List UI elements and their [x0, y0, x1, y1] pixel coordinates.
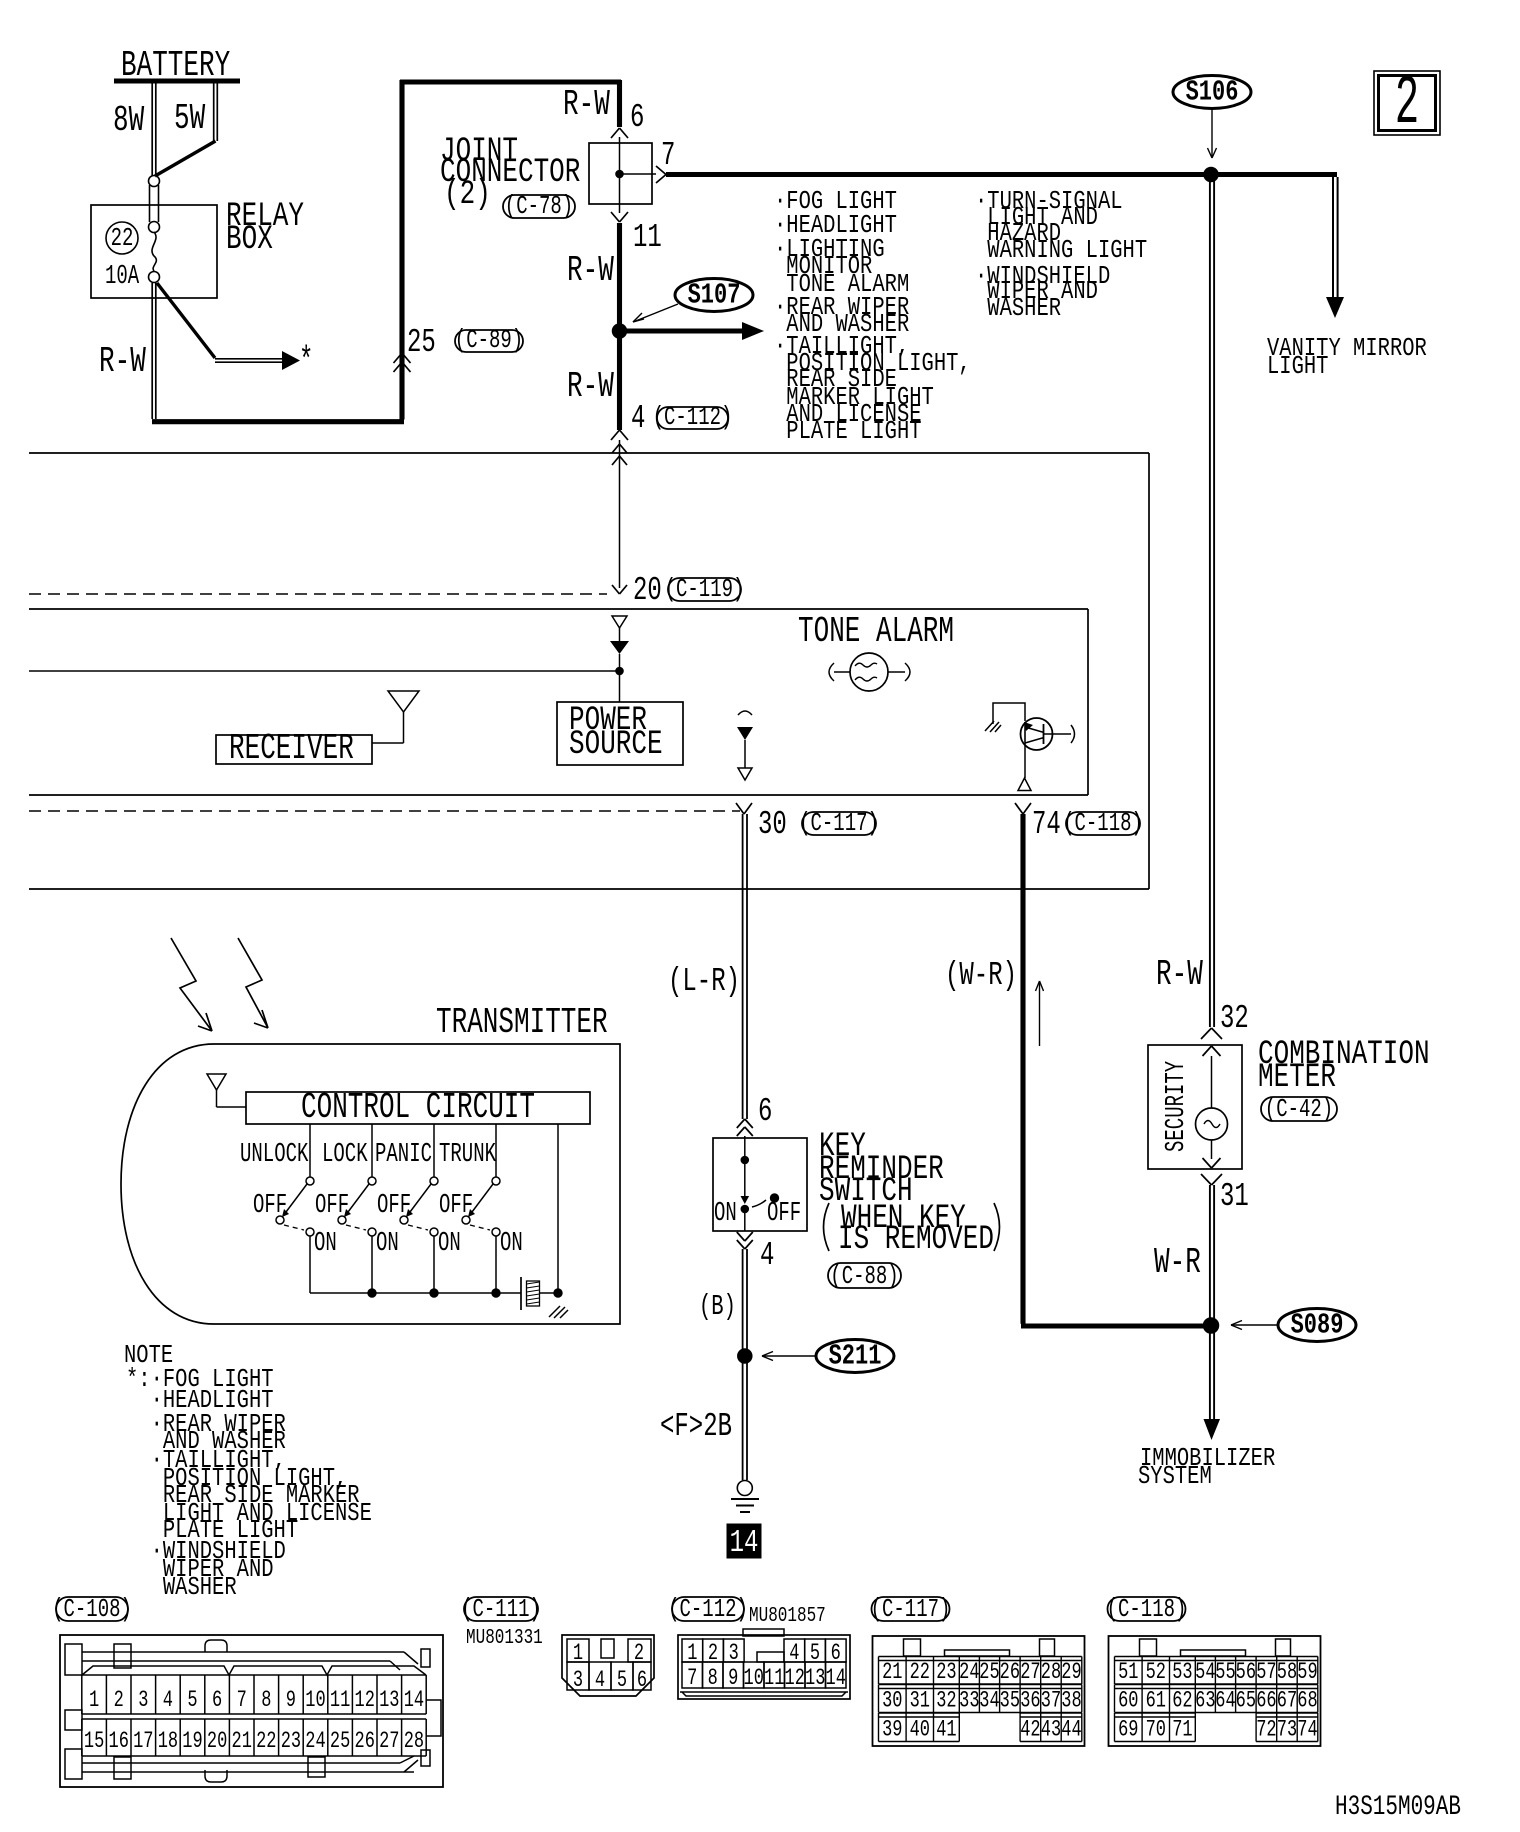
- ground reference tag 14: [727, 1524, 761, 1558]
- svg-text:LIGHT: LIGHT: [1267, 352, 1328, 382]
- svg-text:3: 3: [138, 1688, 148, 1714]
- svg-text:SOURCE: SOURCE: [569, 726, 663, 764]
- ground G1 symbol: [731, 1498, 759, 1500]
- svg-text:*: *: [299, 343, 313, 383]
- immobilizer arrowhead: [1204, 1419, 1221, 1440]
- fuse F22 top terminal: [149, 176, 160, 187]
- svg-text:9: 9: [286, 1688, 296, 1714]
- svg-text:H3S15M09AB: H3S15M09AB: [1335, 1793, 1461, 1823]
- switch SW2 lever: [345, 1184, 369, 1216]
- svg-text:IS REMOVED: IS REMOVED: [838, 1221, 994, 1259]
- power source box: [557, 702, 683, 765]
- svg-text:<F>2B: <F>2B: [660, 1407, 732, 1445]
- switch SW1 dashed throw: [284, 1225, 304, 1230]
- svg-text:R-W: R-W: [567, 251, 614, 291]
- meter pin 32 chevrons: [1201, 1028, 1212, 1039]
- svg-text:(C-117): (C-117): [871, 1594, 951, 1624]
- connector C-119 pin 20 arrow: [612, 585, 620, 594]
- ECU box bottom edge: [29, 888, 1149, 890]
- C-108 left tabs: [65, 1644, 82, 1675]
- joint connector pin 11 chevron: [611, 212, 620, 222]
- splice S211 leader arrow: [762, 1355, 816, 1357]
- svg-text:17: 17: [133, 1729, 153, 1755]
- wire 8W (double): [151, 83, 153, 176]
- ECU box top edge: [29, 452, 1149, 454]
- wire 5W diagonal to fuse: [155, 141, 216, 176]
- svg-text:ON: ON: [314, 1228, 337, 1258]
- splice S107 junction: [613, 324, 627, 338]
- wire branch arrow to fog light circuits: [215, 358, 284, 360]
- connector label C-117 (pin 30): [802, 812, 876, 835]
- svg-text:12: 12: [355, 1688, 375, 1714]
- svg-text:59: 59: [1297, 1660, 1317, 1686]
- switch SW1 output wire: [309, 1236, 311, 1293]
- svg-text:WASHER: WASHER: [975, 294, 1061, 324]
- svg-text:72: 72: [1256, 1717, 1276, 1743]
- svg-text:35: 35: [1000, 1688, 1020, 1714]
- wire thick vertical riser x=402: [399, 80, 404, 420]
- security lamp internal wire: [1211, 1056, 1213, 1108]
- svg-text:69: 69: [1118, 1717, 1138, 1743]
- svg-text:2: 2: [1395, 66, 1419, 144]
- wire L-R (double) from pin 30: [742, 814, 744, 1119]
- C-108 shoulder profile: [82, 1666, 426, 1675]
- svg-text:(C-118): (C-118): [1107, 1594, 1187, 1624]
- svg-text:23: 23: [936, 1660, 956, 1686]
- tone alarm box right edge: [1087, 609, 1089, 795]
- svg-text:TONE ALARM: TONE ALARM: [798, 612, 954, 652]
- tone alarm sounder circle: [850, 653, 888, 691]
- connector C-118 pin 74 chevron: [1015, 803, 1023, 814]
- wire thick bottom run to C-89: [152, 419, 404, 424]
- svg-text:(C-112): (C-112): [668, 1594, 748, 1624]
- svg-text:3: 3: [729, 1641, 739, 1667]
- switch SW2 output wire: [371, 1236, 373, 1293]
- svg-text:74: 74: [1032, 805, 1061, 843]
- switch SW4 OFF contact: [462, 1216, 470, 1224]
- switch SW4 top contact: [492, 1177, 500, 1185]
- C-117 pin row 3: [879, 1712, 960, 1714]
- battery cell plate: [520, 1277, 522, 1310]
- svg-text:25: 25: [979, 1660, 999, 1686]
- svg-text:S107: S107: [688, 279, 741, 312]
- svg-text:22: 22: [910, 1660, 930, 1686]
- svg-text:(W-R): (W-R): [945, 956, 1017, 994]
- transistor Q1 ground hatch: [985, 721, 994, 731]
- svg-text:40: 40: [910, 1717, 930, 1743]
- svg-text:ON: ON: [376, 1228, 399, 1258]
- splice S089 ellipse: [1278, 1309, 1356, 1342]
- svg-text:(C-78): (C-78): [505, 191, 573, 221]
- svg-text:UNLOCK: UNLOCK: [240, 1139, 309, 1169]
- wire thick W-R from pin 74: [1020, 814, 1025, 1324]
- joint connector pin 6 chevron: [611, 128, 620, 138]
- svg-text:10: 10: [744, 1666, 764, 1692]
- svg-text:TRUNK: TRUNK: [439, 1139, 496, 1169]
- dashed boundary line (C-119): [29, 593, 607, 595]
- svg-text:6: 6: [831, 1641, 841, 1667]
- joint connector U1 body: [589, 143, 652, 204]
- switch SW4 wire: [495, 1124, 497, 1177]
- connector C-111 housing: [562, 1635, 654, 1696]
- connector C-119 female triangle: [612, 616, 627, 628]
- transistor Q1 body: [1021, 718, 1053, 750]
- svg-text:(C-118): (C-118): [1063, 808, 1143, 838]
- svg-text:CONTROL CIRCUIT: CONTROL CIRCUIT: [301, 1088, 535, 1128]
- svg-text:29: 29: [1061, 1660, 1081, 1686]
- connector label C-89: [455, 330, 523, 352]
- switch SW1 wire: [309, 1124, 311, 1177]
- C-108 right bracket: [426, 1700, 441, 1736]
- svg-text:24: 24: [305, 1729, 325, 1755]
- fuse F22 element: [152, 232, 156, 271]
- key switch pin 6 chevrons: [737, 1119, 745, 1128]
- svg-text:(C-112): (C-112): [653, 402, 733, 432]
- wire pin4 to pin20 (thin): [619, 440, 621, 588]
- wire thick R-W horizontal to vanity mirror: [666, 172, 1337, 177]
- relay box outline: [91, 205, 217, 298]
- svg-text:(C-42): (C-42): [1265, 1094, 1333, 1124]
- svg-text:71: 71: [1172, 1717, 1192, 1743]
- svg-text:7: 7: [661, 136, 675, 174]
- C-118 pin row 3: [1115, 1712, 1196, 1714]
- splice S107 leader arrow: [633, 304, 678, 322]
- C-111 pin cells: [567, 1639, 589, 1662]
- svg-text:26: 26: [355, 1729, 375, 1755]
- svg-text:10: 10: [305, 1688, 325, 1714]
- svg-text:70: 70: [1146, 1717, 1166, 1743]
- svg-text:57: 57: [1256, 1660, 1276, 1686]
- splice S089 leader arrow: [1231, 1324, 1278, 1326]
- connector C-112 pin 4 chevron: [611, 430, 620, 440]
- connector label C-42: [1261, 1097, 1337, 1121]
- svg-text:39: 39: [882, 1717, 902, 1743]
- key switch common wire: [744, 1136, 746, 1160]
- svg-text:WASHER: WASHER: [126, 1573, 237, 1603]
- switch SW3 wire: [433, 1124, 435, 1177]
- svg-text:74: 74: [1297, 1717, 1317, 1743]
- wire 5W (double): [213, 83, 215, 141]
- fuse F22 middle terminal: [149, 222, 160, 233]
- svg-text:5: 5: [810, 1641, 820, 1667]
- wire hatched branch from fuse: [157, 283, 215, 358]
- transmitter antenna: [207, 1074, 226, 1090]
- svg-text:OFF: OFF: [315, 1190, 349, 1220]
- svg-text:6: 6: [212, 1688, 222, 1714]
- connector C-118 housing: [1109, 1636, 1321, 1746]
- svg-text:73: 73: [1277, 1717, 1297, 1743]
- connector label C-118: [1108, 1597, 1186, 1621]
- svg-text:8W: 8W: [113, 101, 144, 141]
- svg-text:4: 4: [163, 1688, 173, 1714]
- svg-text:15: 15: [84, 1729, 104, 1755]
- switch SW2 ON contact: [368, 1228, 376, 1236]
- svg-text:R-W: R-W: [1156, 955, 1203, 995]
- key switch OFF contact dot: [770, 1194, 778, 1202]
- switch SW4 output wire: [495, 1236, 497, 1293]
- splice S106 junction: [1204, 168, 1218, 182]
- svg-text:S089: S089: [1291, 1309, 1344, 1342]
- connector C-108 housing: [60, 1635, 443, 1787]
- switch SW2 OFF contact: [338, 1216, 346, 1224]
- svg-text:27: 27: [1020, 1660, 1040, 1686]
- connector C-117 pin 30 chevron: [736, 803, 744, 814]
- switch SW1 top contact: [306, 1177, 314, 1185]
- C-117 top tabs: [904, 1639, 921, 1656]
- switch SW2 top contact: [368, 1177, 376, 1185]
- svg-text:S211: S211: [829, 1340, 882, 1373]
- svg-text:67: 67: [1277, 1688, 1297, 1714]
- svg-text:55: 55: [1215, 1660, 1235, 1686]
- svg-text:21: 21: [882, 1660, 902, 1686]
- wire thick branch arrow right from S107: [624, 328, 744, 333]
- joint connector pin 7 wire: [620, 173, 657, 175]
- C-108 inner tabs: [114, 1644, 131, 1668]
- svg-text:11: 11: [330, 1688, 350, 1714]
- svg-text:13: 13: [379, 1688, 399, 1714]
- svg-text:6: 6: [758, 1092, 772, 1130]
- key reminder switch box: [713, 1138, 807, 1231]
- svg-text:62: 62: [1172, 1688, 1192, 1714]
- svg-text:OFF: OFF: [253, 1190, 287, 1220]
- svg-text:4: 4: [595, 1668, 605, 1694]
- switch SW4 lever: [469, 1184, 493, 1216]
- ECU box right edge: [1148, 453, 1150, 889]
- svg-text:14: 14: [730, 1526, 759, 1561]
- switch SW3 lever: [407, 1184, 431, 1216]
- svg-text:63: 63: [1195, 1688, 1215, 1714]
- wire thick top run to joint connector: [400, 79, 621, 84]
- transmitter enclosure: [121, 1044, 620, 1324]
- joint connector node dot: [616, 170, 624, 178]
- ground G1 terminal: [737, 1481, 752, 1496]
- svg-text:5W: 5W: [174, 99, 205, 139]
- tone alarm output connector pair: [738, 711, 752, 715]
- svg-text:MU801331: MU801331: [466, 1626, 543, 1650]
- svg-text:66: 66: [1256, 1688, 1276, 1714]
- wire from fuse to R-W (double): [151, 283, 153, 419]
- svg-text:14: 14: [404, 1688, 424, 1714]
- splice S106 leader arrow: [1211, 109, 1213, 156]
- svg-text:36: 36: [1020, 1688, 1040, 1714]
- splice S106 ellipse: [1173, 76, 1251, 109]
- splice S211 junction: [738, 1349, 752, 1363]
- svg-text:OFF: OFF: [377, 1190, 411, 1220]
- control circuit return wire: [557, 1124, 559, 1293]
- svg-text:32: 32: [1220, 999, 1249, 1037]
- vanity mirror arrowhead: [1326, 297, 1344, 318]
- switch SW4 dashed throw: [470, 1225, 490, 1230]
- wire horizontal internal bus: [29, 670, 620, 672]
- svg-text:56: 56: [1236, 1660, 1256, 1686]
- C-112 bottom skirt: [680, 1691, 848, 1693]
- wire R-W (double) S106 to meter: [1209, 181, 1211, 1027]
- svg-text:60: 60: [1118, 1688, 1138, 1714]
- node junction dot (power source feed): [616, 667, 624, 675]
- svg-text:(C-89): (C-89): [455, 325, 523, 355]
- svg-text:2: 2: [114, 1688, 124, 1714]
- svg-text:11: 11: [633, 218, 662, 256]
- svg-text:51: 51: [1118, 1660, 1138, 1686]
- svg-text:52: 52: [1146, 1660, 1166, 1686]
- tone alarm right lead: [888, 671, 905, 673]
- svg-text:28: 28: [1041, 1660, 1061, 1686]
- battery cell coil (hatched): [527, 1281, 540, 1306]
- switch SW1 lever: [283, 1184, 307, 1216]
- key switch pin 4 chevrons: [737, 1232, 745, 1241]
- C-108 top cap: [205, 1640, 227, 1652]
- switch SW3 dashed throw: [408, 1225, 428, 1230]
- svg-text:4: 4: [789, 1641, 799, 1667]
- svg-text:16: 16: [109, 1729, 129, 1755]
- page tag 2 box: [1374, 71, 1440, 135]
- svg-text:30: 30: [758, 805, 787, 843]
- transmitter ground: [549, 1306, 560, 1317]
- svg-text:58: 58: [1277, 1660, 1297, 1686]
- battery bus bar: [114, 79, 240, 84]
- svg-text:2: 2: [634, 1641, 644, 1667]
- key switch lever (to OFF): [752, 1200, 766, 1207]
- connector label C-117: [872, 1597, 950, 1621]
- wire B (double) below key switch: [742, 1249, 744, 1480]
- svg-text:7: 7: [687, 1666, 697, 1692]
- C-108 bottom housing lines: [82, 1762, 400, 1764]
- svg-text:TRANSMITTER: TRANSMITTER: [436, 1003, 608, 1043]
- svg-text:42: 42: [1020, 1717, 1040, 1743]
- C-108 pin grid: [82, 1674, 426, 1676]
- svg-text:ON: ON: [500, 1228, 523, 1258]
- svg-text:38: 38: [1061, 1688, 1081, 1714]
- switch SW3 output wire: [433, 1236, 435, 1293]
- meter pin 31 chevrons: [1203, 1158, 1212, 1168]
- radio wave bolt 1: [171, 938, 212, 1031]
- tone alarm box top edge: [29, 608, 1088, 610]
- svg-text:11: 11: [764, 1666, 784, 1692]
- svg-text:13: 13: [805, 1666, 825, 1692]
- control circuit box: [246, 1092, 590, 1124]
- svg-text:(C-111): (C-111): [461, 1594, 541, 1624]
- receiver antenna: [388, 691, 419, 712]
- combination meter box: [1148, 1045, 1242, 1169]
- connector label C-118 (pin 74): [1066, 812, 1140, 835]
- svg-text:5: 5: [187, 1688, 197, 1714]
- svg-text:34: 34: [979, 1688, 999, 1714]
- svg-text:32: 32: [936, 1688, 956, 1714]
- svg-text:64: 64: [1215, 1688, 1235, 1714]
- svg-text:33: 33: [959, 1688, 979, 1714]
- svg-text:68: 68: [1297, 1688, 1317, 1714]
- svg-text:LOCK: LOCK: [322, 1139, 368, 1169]
- wire to vanity mirror light (double): [1332, 177, 1334, 298]
- C-108 bottom cap: [205, 1770, 227, 1782]
- svg-text:44: 44: [1061, 1717, 1081, 1743]
- C-118 top tabs: [1140, 1639, 1157, 1656]
- switch SW3 top contact: [430, 1177, 438, 1185]
- svg-text:W-R: W-R: [1154, 1243, 1201, 1283]
- key switch ON contact: [741, 1205, 749, 1213]
- svg-text:31: 31: [910, 1688, 930, 1714]
- svg-text:(C-88): (C-88): [830, 1261, 898, 1291]
- C-117 pin rows 1-2: [879, 1656, 1082, 1658]
- svg-text:PANIC: PANIC: [375, 1139, 432, 1169]
- key switch moving contact arrow: [741, 1196, 750, 1204]
- switch SW1 OFF contact: [276, 1216, 284, 1224]
- svg-text:5: 5: [617, 1668, 627, 1694]
- svg-text:31: 31: [1220, 1177, 1249, 1215]
- switch common bus: [310, 1292, 521, 1294]
- battery to ground wire: [540, 1292, 559, 1294]
- key switch condition label with parens: [824, 1203, 830, 1251]
- svg-text:41: 41: [936, 1717, 956, 1743]
- svg-text:(C-108): (C-108): [52, 1594, 132, 1624]
- svg-text:(L-R): (L-R): [668, 962, 740, 1000]
- connector C-112 housing: [678, 1635, 850, 1699]
- connector label C-112 (bottom): [672, 1597, 744, 1621]
- fuse number 22 (circled): [106, 222, 138, 254]
- svg-text:ON: ON: [714, 1198, 737, 1228]
- svg-text:12: 12: [785, 1666, 805, 1692]
- receiver box: [216, 735, 372, 764]
- svg-text:SYSTEM: SYSTEM: [1138, 1462, 1212, 1492]
- switch SW3 ON contact: [430, 1228, 438, 1236]
- svg-text:23: 23: [281, 1729, 301, 1755]
- fuse F22 bottom terminal: [149, 272, 160, 283]
- direction arrow up: [1039, 983, 1041, 1046]
- svg-text:BOX: BOX: [226, 221, 273, 259]
- svg-text:(2): (2): [444, 176, 491, 214]
- svg-text:(B): (B): [699, 1291, 736, 1323]
- svg-text:22: 22: [256, 1729, 276, 1755]
- meter internal wire lower: [1211, 1140, 1213, 1159]
- connector label C-111: [464, 1597, 538, 1621]
- svg-text:1: 1: [687, 1641, 697, 1667]
- radio wave bolt 2: [238, 938, 268, 1028]
- switch SW2 dashed throw: [346, 1225, 366, 1230]
- output triangle symbol: [1018, 778, 1031, 791]
- svg-text:OFF: OFF: [767, 1198, 801, 1228]
- svg-text:14: 14: [826, 1666, 846, 1692]
- svg-text:6: 6: [630, 98, 644, 136]
- connector label C-88: [828, 1263, 901, 1288]
- svg-text:RECEIVER: RECEIVER: [229, 729, 354, 769]
- tone alarm box bottom edge: [29, 794, 1088, 796]
- svg-text:R-W: R-W: [563, 85, 610, 125]
- wire W-R (double) meter to S089: [1209, 1185, 1211, 1419]
- svg-text:2: 2: [708, 1641, 718, 1667]
- transistor Q1 output wire: [1024, 743, 1026, 778]
- svg-text:4: 4: [631, 399, 645, 437]
- fuse F22 holder: [149, 185, 151, 222]
- svg-text:3: 3: [573, 1668, 583, 1694]
- svg-text:8: 8: [261, 1688, 271, 1714]
- connector label C-78: [503, 195, 575, 218]
- svg-text:24: 24: [959, 1660, 979, 1686]
- svg-text:25: 25: [330, 1729, 350, 1755]
- connector C-89 pin 25 chevrons: [394, 353, 403, 363]
- svg-text:MU801857: MU801857: [749, 1604, 826, 1628]
- svg-text:6: 6: [637, 1668, 647, 1694]
- svg-text:65: 65: [1236, 1688, 1256, 1714]
- svg-text:53: 53: [1172, 1660, 1192, 1686]
- svg-text:9: 9: [728, 1666, 738, 1692]
- svg-text:43: 43: [1041, 1717, 1061, 1743]
- joint connector pin 7 chevron: [656, 166, 666, 175]
- svg-text:61: 61: [1146, 1688, 1166, 1714]
- svg-text:18: 18: [158, 1729, 178, 1755]
- switch SW2 wire: [371, 1124, 373, 1177]
- svg-text:20: 20: [633, 571, 662, 609]
- C-112 pin cells top: [682, 1639, 703, 1662]
